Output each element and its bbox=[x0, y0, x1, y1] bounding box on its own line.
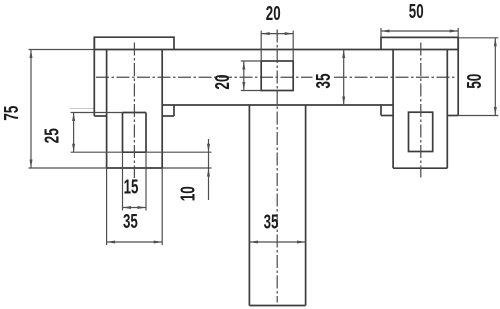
svg-text:75: 75 bbox=[1, 106, 23, 121]
svg-text:25: 25 bbox=[42, 128, 64, 143]
svg-text:50: 50 bbox=[464, 74, 486, 89]
svg-text:35: 35 bbox=[313, 73, 335, 88]
svg-text:35: 35 bbox=[264, 212, 279, 234]
svg-text:35: 35 bbox=[123, 211, 138, 233]
svg-text:15: 15 bbox=[124, 177, 139, 199]
svg-text:20: 20 bbox=[266, 3, 281, 25]
svg-text:50: 50 bbox=[409, 1, 424, 23]
svg-text:20: 20 bbox=[212, 74, 234, 89]
svg-text:10: 10 bbox=[178, 186, 200, 201]
